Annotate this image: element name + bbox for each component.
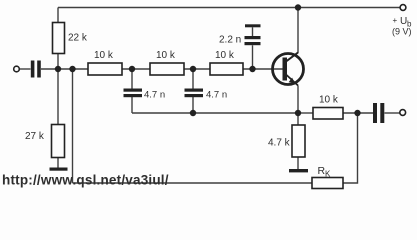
wire output R to output cap	[343, 112, 373, 114]
wire RK to output node	[343, 113, 358, 183]
label +Ub	[392, 16, 412, 37]
wire C2 top stub	[192, 69, 194, 89]
wire 4.7k to ground	[297, 157, 299, 169]
terminal +Ub	[400, 5, 406, 11]
transistor Q1	[273, 53, 304, 86]
capacitor C3 2.2n	[219, 35, 261, 46]
node dot R2-R3 junction	[190, 66, 196, 72]
resistor RK feedback	[312, 165, 343, 189]
resistor RE 4.7k	[268, 125, 305, 157]
svg-text:10 k: 10 k	[156, 50, 176, 61]
wire node2 down to feedback rail	[72, 69, 74, 183]
resistor R2 10k	[150, 50, 184, 75]
wire R1 to R2	[122, 68, 150, 70]
svg-text:4.7 n: 4.7 n	[144, 90, 165, 101]
ground below 27k	[50, 168, 68, 171]
node dot collector rail	[295, 4, 301, 10]
resistor R 22k	[53, 23, 88, 54]
wire bottom feedback rail	[73, 182, 313, 184]
svg-text:27 k: 27 k	[25, 131, 45, 142]
svg-text:(9 V): (9 V)	[392, 27, 412, 37]
wire emitter down	[297, 86, 299, 114]
wire input cap to base chain	[41, 68, 88, 70]
resistor R4 10k output	[313, 95, 343, 120]
wire bootstrap rail	[132, 112, 298, 114]
wire input terminal to coupling cap	[20, 68, 31, 70]
capacitor C2 4.7n	[185, 89, 228, 101]
wire 27k to ground	[57, 158, 59, 168]
wire 2.2n stub lower	[252, 45, 254, 69]
svg-text:10 k: 10 k	[215, 50, 235, 61]
wire R2 to R3	[184, 68, 210, 70]
svg-text:4.7 k: 4.7 k	[268, 138, 291, 149]
resistor R3 10k	[210, 50, 243, 75]
node dot emitter junction	[295, 110, 301, 116]
wire top supply rail	[58, 7, 400, 9]
wire C2 bottom stub	[192, 97, 194, 113]
wire collector up	[297, 8, 299, 54]
terminal input	[14, 66, 20, 72]
node dot output junction	[354, 110, 360, 116]
capacitor input coupling	[31, 61, 41, 78]
svg-text:4.7 n: 4.7 n	[206, 90, 227, 101]
wire node1 down to 27k	[57, 69, 59, 125]
svg-text:2.2 n: 2.2 n	[219, 35, 241, 46]
wire C1 top stub	[131, 69, 133, 89]
wire 22k bottom to input node	[57, 54, 59, 70]
resistor R 27k	[25, 125, 65, 158]
svg-text:22 k: 22 k	[68, 33, 88, 44]
resistor R1 10k	[88, 50, 122, 75]
node dot input bias	[55, 66, 61, 72]
wire output cap to terminal	[385, 112, 400, 114]
terminal output	[400, 110, 406, 116]
node dot R1-R2 junction	[129, 66, 135, 72]
capacitor C1 4.7n	[124, 89, 166, 101]
wire 2.2n stub upper	[252, 27, 254, 36]
node dot bootstrap junction	[190, 110, 196, 116]
wire R3 to base	[243, 68, 283, 70]
ground below 4.7k	[289, 169, 308, 172]
svg-text:+: +	[393, 16, 398, 25]
node dot base junction	[249, 66, 255, 72]
svg-text:K: K	[325, 170, 331, 179]
ground above 2.2n	[245, 24, 261, 27]
node dot feedback junction	[69, 66, 75, 72]
svg-text:10 k: 10 k	[94, 50, 114, 61]
wire rail to R 22k	[57, 8, 59, 23]
wire emitter node to 4.7k	[297, 113, 299, 125]
capacitor output coupling	[373, 103, 384, 123]
svg-text:http://www.qsl.net/va3iul/: http://www.qsl.net/va3iul/	[2, 173, 169, 188]
svg-text:10 k: 10 k	[319, 95, 339, 106]
wire emitter node to output R	[298, 112, 313, 114]
wire C1 bottom stub	[131, 97, 133, 113]
